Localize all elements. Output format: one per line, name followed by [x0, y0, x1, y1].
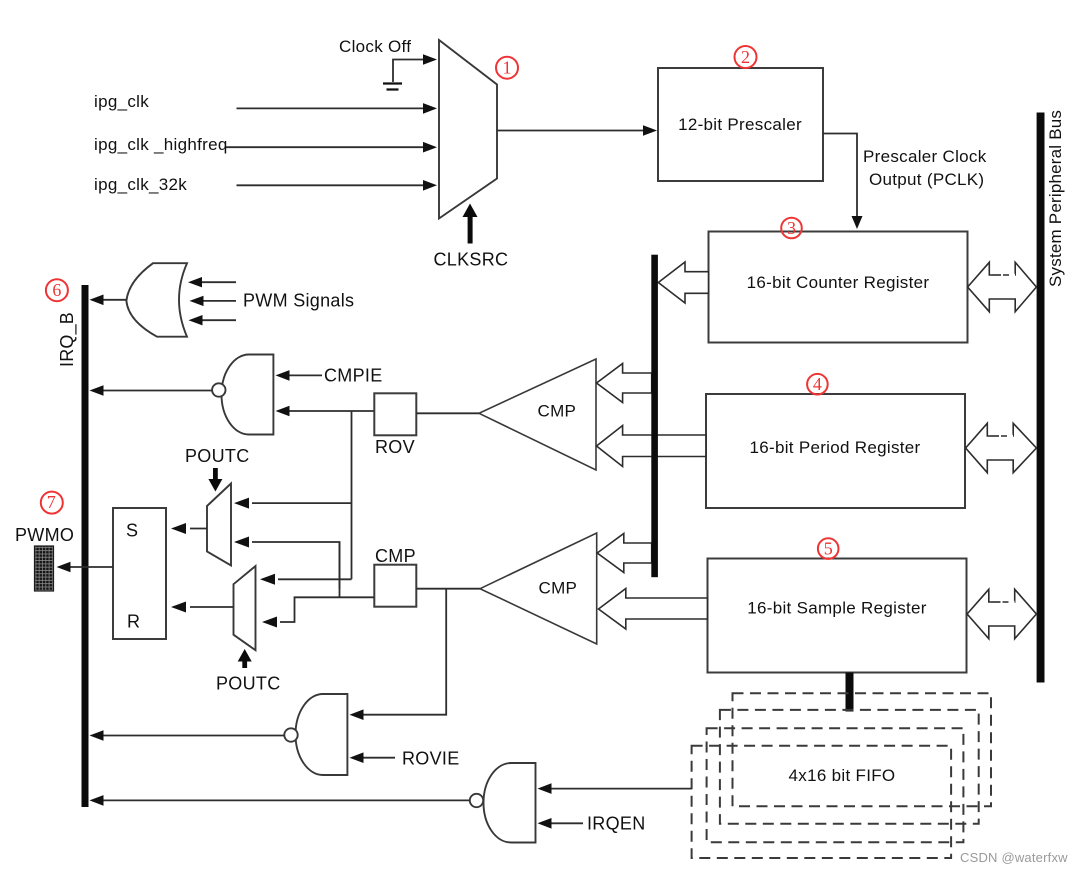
svg-text:16-bit Sample Register: 16-bit Sample Register: [747, 599, 927, 618]
fifo sheet 4 (4x16 bit FIFO): [692, 746, 952, 858]
svg-text:CLKSRC: CLKSRC: [434, 250, 509, 270]
node 2: [735, 46, 757, 68]
wire nand2 output: [103, 735, 284, 737]
svg-text:Clock Off: Clock Off: [339, 37, 411, 56]
svg-text:7: 7: [47, 492, 56, 512]
arrow CLKSRC: [463, 204, 478, 244]
wire pwm input 3: [201, 319, 236, 321]
wire mux-reset output: [190, 606, 234, 608]
nand-gate ROVIE: [284, 694, 347, 775]
wire mux-reset input A: [278, 578, 352, 580]
svg-text:1: 1: [503, 58, 512, 78]
wire ipg_clk_32k: [237, 184, 426, 186]
svg-text:POUTC: POUTC: [216, 674, 281, 694]
block CMP flag: [374, 546, 416, 607]
wire nand3 output: [103, 799, 470, 801]
mux set (upper POUTC): [207, 484, 231, 566]
wire mux-set output: [190, 528, 207, 530]
mux reset (lower POUTC): [234, 566, 256, 650]
svg-text:3: 3: [787, 218, 796, 238]
svg-text:16-bit Counter Register: 16-bit Counter Register: [747, 273, 930, 292]
comparator CMP upper: [479, 359, 596, 470]
node 4: [807, 374, 828, 395]
arrow counter to peripheral-bus: [968, 262, 1037, 311]
bus System Peripheral Bus: [1037, 113, 1045, 683]
arrow POUTC up: [238, 649, 252, 668]
svg-text:6: 6: [52, 280, 61, 300]
svg-text:Prescaler Clock: Prescaler Clock: [863, 147, 987, 166]
wire CMPIE input: [288, 374, 322, 376]
svg-text:5: 5: [824, 539, 833, 559]
node 5: [818, 538, 839, 559]
wire pwm input 1: [200, 281, 236, 283]
nand-gate IRQEN: [470, 763, 536, 843]
arrow bar to cmp-upper: [597, 364, 652, 403]
svg-text:System Peripheral Bus: System Peripheral Bus: [1046, 110, 1065, 287]
svg-text:PWMO: PWMO: [15, 525, 74, 545]
wire PWMO output: [70, 566, 113, 568]
wire cmp net to nand2: [362, 589, 446, 715]
arrow sample to peripheral-bus: [967, 589, 1036, 638]
wire mux output to prescaler: [497, 130, 645, 132]
wire nand1 output: [103, 390, 212, 392]
wire or-gate output: [103, 299, 126, 301]
or-gate PWM signals: [126, 263, 187, 337]
svg-text:IRQEN: IRQEN: [587, 814, 646, 834]
wire fifo to nand3: [550, 788, 692, 790]
node 6: [46, 279, 68, 301]
svg-text:IRQ_B: IRQ_B: [57, 312, 78, 367]
wire pwm input 2: [202, 300, 236, 302]
wire junction V2 (CMP net): [339, 542, 341, 597]
svg-text:12-bit Prescaler: 12-bit Prescaler: [678, 115, 802, 134]
comparator CMP lower: [480, 533, 597, 644]
nand-gate CMPIE: [212, 355, 273, 435]
svg-text:ipg_clk: ipg_clk: [94, 92, 149, 111]
svg-text:ipg_clk _highfreq: ipg_clk _highfreq: [94, 135, 228, 154]
svg-text:PWM Signals: PWM Signals: [243, 291, 354, 311]
wire ipg_clk_highfreq: [226, 146, 425, 148]
wire mux-set input A: [252, 502, 352, 504]
svg-text:Output (PCLK): Output (PCLK): [869, 170, 984, 189]
block 16-bit Period Register: [706, 394, 965, 508]
node 1: [496, 57, 518, 79]
arrow POUTC down: [208, 468, 222, 492]
arrow period to peripheral-bus: [966, 423, 1037, 472]
wire sample to fifo (thick stub): [846, 673, 854, 712]
arrow sample to cmp-lower: [599, 589, 708, 630]
svg-text:POUTC: POUTC: [185, 446, 250, 466]
wire IRQEN input: [550, 822, 583, 824]
svg-text:4x16 bit FIFO: 4x16 bit FIFO: [789, 766, 896, 785]
wire ROVIE input: [362, 757, 395, 759]
flip-flop S/R: [113, 508, 166, 639]
svg-text:CMP: CMP: [539, 579, 578, 598]
svg-text:ROV: ROV: [375, 437, 415, 457]
fifo sheet 1: [733, 693, 992, 806]
wire ROV to nand1: [288, 410, 374, 412]
svg-text:CMPIE: CMPIE: [324, 366, 383, 386]
wire prescaler to counter: [823, 134, 857, 218]
svg-text:2: 2: [741, 47, 750, 67]
block 16-bit Sample Register: [708, 559, 967, 673]
bus IRQ_B: [82, 285, 89, 807]
svg-text:CMP: CMP: [375, 546, 416, 566]
block ROV flag: [374, 393, 416, 457]
arrow counter to bar: [658, 262, 708, 303]
svg-text:CMP: CMP: [538, 402, 577, 421]
wire ipg_clk: [237, 107, 426, 109]
wire clock-off elbow: [393, 60, 426, 83]
arrow bar to cmp-lower: [597, 534, 652, 573]
block 12-bit Prescaler: [658, 68, 823, 181]
svg-text:ROVIE: ROVIE: [402, 749, 460, 769]
wire mux-reset input B: [280, 597, 374, 622]
bar counter bus: [651, 255, 658, 578]
svg-text:S: S: [126, 521, 138, 541]
fifo sheet 2: [720, 710, 979, 824]
fifo sheet 3: [707, 728, 964, 842]
node 3: [781, 218, 802, 239]
arrow period to cmp-upper: [597, 426, 706, 467]
wire mux-set input B: [252, 542, 340, 589]
wire ROV to cmp-upper: [416, 412, 479, 414]
svg-text:R: R: [127, 612, 140, 632]
svg-text:CSDN @waterfxw: CSDN @waterfxw: [960, 850, 1068, 865]
wire CMP to cmp-lower: [416, 588, 480, 590]
svg-text:4: 4: [813, 374, 822, 394]
block 16-bit Counter Register: [709, 232, 968, 343]
mux clock-select: [439, 40, 497, 219]
svg-text:16-bit Period Register: 16-bit Period Register: [749, 438, 920, 457]
wire junction V1 (ROV net): [351, 411, 353, 579]
ground: [383, 84, 402, 90]
node 7: [41, 492, 63, 514]
svg-text:ipg_clk_32k: ipg_clk_32k: [94, 175, 187, 194]
